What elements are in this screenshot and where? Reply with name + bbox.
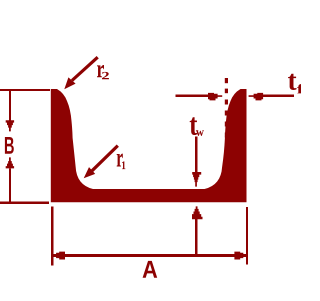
arrowhead r2 bbox=[64, 77, 75, 89]
extension line bottom (web bottom level) bbox=[0, 201, 49, 203]
label r2 : r bbox=[97, 65, 104, 77]
r2 leader arrow line bbox=[72, 57, 98, 80]
label t_f : t bbox=[288, 74, 297, 90]
label B bbox=[5, 137, 14, 154]
label A bbox=[143, 261, 158, 278]
arrowhead B down (stepped) bbox=[6, 120, 14, 131]
arrowhead r1 bbox=[84, 167, 96, 178]
arrowhead A left (stepped) bbox=[54, 252, 65, 260]
label t_w : w subscript bbox=[196, 130, 204, 136]
t_f right-pointing arrow line bbox=[176, 95, 209, 97]
label r1 : 1 subscript bbox=[122, 161, 125, 169]
dimension line A bbox=[54, 254, 246, 257]
arrowhead B up (stepped) bbox=[6, 157, 14, 168]
arrowhead t_f right (stepped) bbox=[208, 93, 222, 101]
dimension line B upper segment bbox=[9, 90, 11, 121]
dashed line (right flange inner face extension) bbox=[225, 78, 228, 160]
channel section (U-profile cross-section) bbox=[51, 89, 247, 202]
t_w up arrow line bbox=[195, 219, 198, 254]
arrowhead t_f left (stepped) bbox=[249, 93, 264, 101]
extension line top (flange top level) bbox=[0, 89, 50, 91]
r1 leader arrow line bbox=[92, 146, 118, 171]
label r2 : 2 subscript bbox=[102, 72, 109, 79]
arrowhead t_w down (stepped) bbox=[192, 172, 201, 187]
t_w down arrow line bbox=[195, 136, 198, 172]
dimension line B lower segment bbox=[9, 168, 11, 204]
arrowhead t_w up (stepped) bbox=[192, 206, 203, 219]
label t_w : t bbox=[190, 117, 198, 135]
arrowhead A right (stepped) bbox=[234, 252, 245, 260]
label r1 : r bbox=[117, 154, 123, 167]
extension line A right bbox=[246, 207, 248, 265]
t_f left-pointing arrow line bbox=[263, 95, 295, 97]
label t_f : f subscript bbox=[297, 84, 304, 93]
extension line A left bbox=[51, 207, 54, 266]
